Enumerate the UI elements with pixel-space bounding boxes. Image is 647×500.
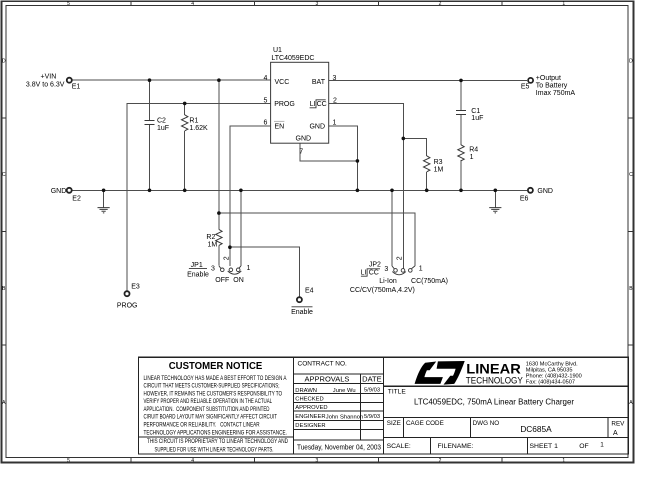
svg-text:APPLICATION. COMPONENT SUBSTI: APPLICATION. COMPONENT SUBSTITUTION AND …	[144, 406, 270, 413]
svg-text:REV: REV	[611, 420, 625, 427]
svg-text:PROG: PROG	[117, 302, 138, 309]
junction EN / E4 wire	[228, 245, 232, 249]
svg-text:5/9/03: 5/9/03	[364, 414, 380, 420]
svg-text:Fax: (408)434-0507: Fax: (408)434-0507	[526, 380, 575, 386]
wire U1 GND pin 7 down then right	[300, 143, 357, 161]
svg-text:3: 3	[211, 266, 215, 273]
svg-text:TITLE: TITLE	[388, 388, 407, 395]
svg-text:D: D	[2, 59, 6, 65]
svg-text:R3: R3	[434, 159, 443, 166]
svg-text:LINEAR TECHNOLOGY HAS MADE A B: LINEAR TECHNOLOGY HAS MADE A BEST EFFORT…	[144, 375, 288, 382]
svg-text:A: A	[613, 430, 618, 437]
resistor R4 1	[458, 145, 464, 161]
svg-text:CIRCUIT THAT MEETS CUSTOMER-SU: CIRCUIT THAT MEETS CUSTOMER-SUPPLIED SPE…	[144, 383, 280, 390]
svg-text:BAT: BAT	[312, 79, 326, 86]
svg-text:June Wu: June Wu	[333, 388, 356, 394]
svg-text:TECHNOLOGY APPLICATIONS ENGINE: TECHNOLOGY APPLICATIONS ENGINEERING FOR …	[144, 429, 288, 436]
svg-text:DC685A: DC685A	[520, 424, 552, 434]
jumper JP2 pins	[392, 266, 415, 275]
svg-text:PROG: PROG	[274, 101, 295, 108]
svg-text:4: 4	[191, 458, 194, 464]
wire VIN rail: E1 to U1 VCC pin 4	[72, 80, 527, 296]
junction rail/C2	[148, 189, 152, 193]
svg-text:5: 5	[67, 1, 70, 7]
svg-text:GND: GND	[51, 188, 67, 195]
svg-text:1630 McCarthy Blvd.: 1630 McCarthy Blvd.	[526, 361, 578, 367]
approvals rows	[295, 388, 380, 429]
jumper JP2 shunt arc pins 3-2	[392, 272, 406, 275]
svg-text:CC: CC	[317, 101, 327, 108]
ground symbol at right (E6 rail)	[489, 208, 501, 213]
svg-text:ENGINEER: ENGINEER	[295, 414, 325, 420]
svg-text:1M: 1M	[434, 166, 444, 173]
svg-text:5/9/03: 5/9/03	[364, 388, 380, 394]
terminal E4	[297, 297, 302, 302]
svg-text:4: 4	[191, 1, 194, 7]
svg-text:OF: OF	[579, 443, 588, 450]
svg-text:LINEAR: LINEAR	[466, 360, 521, 376]
wire PROG net: U1 PROG pin 5 left then down to E3	[127, 103, 271, 290]
svg-text:6: 6	[264, 120, 268, 127]
svg-text:3: 3	[316, 1, 319, 7]
svg-text:LI: LI	[310, 101, 316, 108]
svg-text:1: 1	[600, 441, 604, 448]
resistor R2 1M	[216, 229, 222, 245]
svg-text:SUPPLIED FOR USE WITH LINEAR T: SUPPLIED FOR USE WITH LINEAR TECHNOLOGY …	[155, 446, 274, 453]
svg-text:5: 5	[264, 97, 268, 104]
junction rail/R3	[425, 189, 429, 193]
svg-text:C2: C2	[157, 118, 166, 125]
Linear Technology logo swoosh	[415, 362, 443, 384]
svg-text:R4: R4	[469, 147, 478, 154]
svg-text:1uF: 1uF	[471, 115, 483, 122]
svg-text:GND: GND	[537, 188, 553, 195]
junction rail/U1 GND	[356, 189, 360, 193]
svg-text:C: C	[2, 172, 6, 178]
svg-text:Imax 750mA: Imax 750mA	[536, 90, 576, 97]
junction VCC/C2	[148, 78, 152, 82]
junction BAT/C1	[459, 79, 463, 83]
svg-text:DATE: DATE	[362, 375, 381, 384]
wire R2 top node to JP2 pin 1	[219, 213, 415, 266]
wire Enable tee: JP1 pin 2 node to E4	[230, 247, 300, 296]
svg-text:1: 1	[470, 154, 474, 161]
wire LICC net: U1 LI/CC pin 2 right then down to JP2 pin 2	[329, 103, 404, 268]
junction rail/R4	[459, 189, 463, 193]
svg-text:TECHNOLOGY: TECHNOLOGY	[466, 375, 523, 385]
svg-text:John Shannon: John Shannon	[326, 415, 363, 421]
svg-text:7: 7	[299, 149, 303, 156]
svg-text:CUSTOMER NOTICE: CUSTOMER NOTICE	[169, 361, 263, 372]
terminal E2	[67, 188, 72, 193]
junction rail/JP2 pin3	[390, 189, 394, 193]
logo address block	[526, 361, 582, 385]
svg-text:E1: E1	[72, 84, 81, 91]
svg-text:R1: R1	[189, 118, 198, 125]
junction VCC/R2	[217, 78, 221, 82]
svg-text:Li-Ion: Li-Ion	[379, 278, 397, 285]
svg-text:E6: E6	[520, 195, 529, 202]
svg-text:SCALE:: SCALE:	[387, 443, 411, 450]
junction PROG/R1	[183, 102, 187, 106]
svg-text:1: 1	[562, 1, 565, 7]
wire VCC to R2 branch down to JP1 pin 3	[218, 80, 220, 266]
junction R2 top / JP2 pin1 wire	[217, 211, 221, 215]
svg-text:1: 1	[554, 443, 558, 450]
svg-text:+VIN: +VIN	[41, 73, 57, 80]
wire BAT rail: U1 BAT pin 3 to E5	[329, 79, 528, 81]
svg-text:LTC4059EDC, 750mA Linear Batte: LTC4059EDC, 750mA Linear Battery Charger	[414, 397, 574, 406]
svg-text:C1: C1	[471, 108, 480, 115]
svg-text:+Output: +Output	[536, 75, 561, 82]
junction LICC/R3	[402, 137, 406, 141]
svg-text:2: 2	[439, 458, 442, 464]
wire BAT node through C1 and R4 to GND rail	[460, 80, 462, 190]
svg-text:PERFORMANCE OR RELIABILITY.: PERFORMANCE OR RELIABILITY. CONTACT LINE…	[144, 422, 260, 429]
svg-text:LI: LI	[361, 270, 367, 277]
svg-text:2: 2	[333, 98, 337, 105]
wire VCC node through C2 to GND rail	[149, 80, 151, 190]
terminal E3	[125, 291, 130, 296]
terminal E1	[67, 78, 72, 83]
wire U1 GND pin 1 right then down to GND rail	[329, 126, 358, 190]
svg-text:1.62K: 1.62K	[189, 125, 208, 132]
wire LICC node to R3 down to GND rail	[403, 138, 426, 190]
terminal E6	[528, 188, 533, 193]
svg-text:5: 5	[67, 458, 70, 464]
svg-text:3.8V to 6.3V: 3.8V to 6.3V	[26, 81, 65, 88]
customer notice body	[144, 375, 289, 454]
svg-text:CIRUIT BOARD LAYOUT MAY SIGNIF: CIRUIT BOARD LAYOUT MAY SIGNIFICANTLY AF…	[144, 414, 278, 421]
resistor R3 1M	[424, 156, 430, 172]
jumper JP1 pins	[219, 266, 241, 275]
junction rail/ground stub left	[102, 189, 106, 193]
svg-text:THIS CIRCUIT IS PROPRIETARY TO: THIS CIRCUIT IS PROPRIETARY TO LINEAR TE…	[147, 438, 288, 445]
svg-text:3: 3	[316, 458, 319, 464]
wire ground stub right	[494, 190, 496, 207]
svg-text:1: 1	[333, 120, 337, 127]
svg-text:CONTRACT NO.: CONTRACT NO.	[298, 361, 348, 368]
svg-text:E3: E3	[131, 283, 140, 290]
svg-text:APPROVALS: APPROVALS	[305, 375, 350, 384]
capacitor C2 1uF plates	[144, 121, 154, 125]
svg-text:DESIGNER: DESIGNER	[295, 423, 325, 429]
JP2 LI/CC annotation lines	[361, 269, 380, 276]
svg-text:3: 3	[384, 266, 388, 273]
ground symbol at left (E2 rail)	[98, 208, 110, 213]
svg-text:D: D	[629, 59, 633, 65]
svg-text:EN: EN	[275, 124, 285, 131]
E4 Enable overline	[292, 306, 313, 308]
svg-text:CC/CV(750mA,4.2V): CC/CV(750mA,4.2V)	[350, 287, 415, 294]
JP1 Enable overline	[189, 268, 207, 270]
svg-text:1: 1	[247, 265, 251, 272]
wire JP2 pin 3 up to GND rail	[391, 190, 393, 266]
svg-text:CC: CC	[369, 270, 379, 277]
svg-text:E4: E4	[305, 287, 314, 294]
svg-text:C: C	[629, 172, 633, 178]
svg-text:Milpitas, CA 95035: Milpitas, CA 95035	[526, 368, 573, 374]
svg-text:1: 1	[562, 458, 565, 464]
svg-text:GND: GND	[309, 124, 325, 131]
svg-text:2: 2	[396, 256, 403, 260]
svg-text:2: 2	[439, 1, 442, 7]
title block frame	[139, 357, 629, 454]
wire JP1 pin 1 to GND rail	[240, 190, 242, 266]
wire ground stub left	[103, 190, 105, 207]
svg-text:E2: E2	[72, 196, 81, 203]
svg-text:E5: E5	[521, 84, 530, 91]
jumper JP1 shunt arc pins 2-1	[228, 271, 242, 274]
svg-text:GND: GND	[296, 136, 312, 143]
svg-text:2: 2	[223, 256, 230, 260]
svg-text:1M: 1M	[208, 241, 218, 248]
svg-text:VCC: VCC	[275, 79, 290, 86]
svg-text:4: 4	[264, 75, 268, 82]
svg-text:LTC4059EDC: LTC4059EDC	[271, 55, 314, 62]
svg-text:ON: ON	[233, 277, 244, 284]
svg-text:FILENAME:: FILENAME:	[438, 443, 474, 450]
svg-text:OFF: OFF	[215, 277, 229, 284]
svg-text:Enable: Enable	[291, 309, 313, 316]
junction rail/JP1 pin1	[239, 189, 243, 193]
svg-text:APPROVED: APPROVED	[295, 405, 327, 411]
LI/CC pin annotation lines at U1	[310, 100, 326, 108]
svg-text:DRAWN: DRAWN	[295, 388, 317, 394]
op-amp/IC U1 LTC4059EDC body	[271, 62, 329, 143]
svg-text:JP1: JP1	[191, 262, 203, 269]
wire EN net: U1 EN pin 6 left then down to JP1 pin 2	[230, 126, 271, 266]
wire PROG node through R1 to GND rail	[184, 103, 186, 190]
svg-text:To Battery: To Battery	[536, 82, 568, 89]
svg-text:R2: R2	[206, 234, 215, 241]
svg-text:HOWEVER, IT REMAINS THE CUSTOM: HOWEVER, IT REMAINS THE CUSTOMER'S RESPO…	[144, 390, 283, 397]
junction rail/R1	[183, 189, 187, 193]
junction rail/ground stub right	[494, 189, 498, 193]
capacitor C1 1uF plates	[456, 111, 466, 115]
svg-text:3: 3	[333, 75, 337, 82]
svg-text:SIZE: SIZE	[387, 420, 401, 427]
svg-text:JP2: JP2	[369, 261, 381, 268]
svg-text:1uF: 1uF	[157, 125, 169, 132]
svg-text:Tuesday, November 04, 2003: Tuesday, November 04, 2003	[297, 443, 381, 452]
svg-text:CAGE CODE: CAGE CODE	[406, 420, 444, 427]
wire GND rail: E2 to E6	[72, 189, 527, 191]
terminal E5	[528, 78, 533, 83]
svg-text:CC(750mA): CC(750mA)	[411, 278, 448, 285]
junction GND pin1/pin7 wires	[356, 159, 360, 163]
EN overline (light)	[274, 120, 284, 122]
svg-text:Phone: (408)432-1900: Phone: (408)432-1900	[526, 374, 582, 380]
svg-text:U1: U1	[273, 47, 282, 54]
svg-text:1: 1	[419, 265, 423, 272]
resistor R1 1.62K	[182, 115, 188, 131]
svg-text:DWG NO: DWG NO	[473, 420, 500, 427]
svg-text:CHECKED: CHECKED	[295, 397, 323, 403]
svg-text:SHEET: SHEET	[530, 443, 553, 450]
svg-text:VERIFY PROPER AND RELIABLE OPE: VERIFY PROPER AND RELIABLE OPERATION IN …	[144, 398, 273, 405]
svg-text:Enable: Enable	[187, 272, 209, 279]
